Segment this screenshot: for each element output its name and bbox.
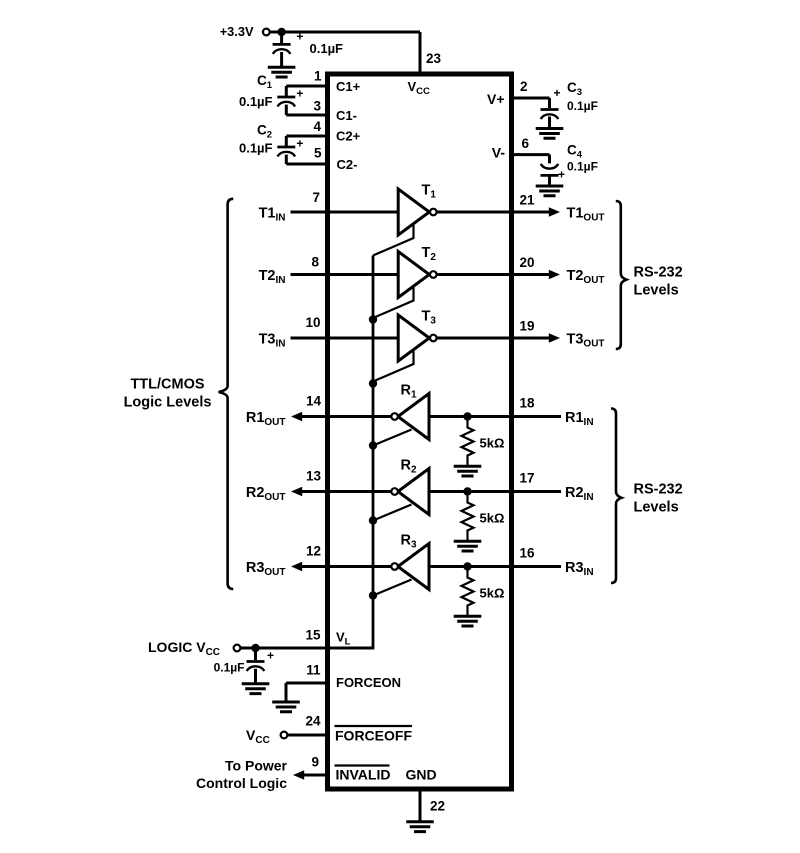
enable bus [372, 256, 375, 649]
enable line T1 [373, 223, 414, 256]
brace TTL/CMOS levels [219, 199, 234, 589]
svg-text:T3: T3 [422, 309, 437, 327]
wire T1OUT pin 21 [436, 211, 550, 214]
svg-text:T1IN: T1IN [259, 206, 286, 224]
svg-text:R2IN: R2IN [565, 485, 594, 503]
svg-text:C1: C1 [257, 73, 273, 91]
svg-text:22: 22 [430, 799, 445, 814]
resistor 5k R2 [462, 492, 474, 542]
wire pin 4 C2+ [286, 135, 328, 138]
arrow R3OUT [291, 562, 302, 572]
wire pin 3 C1- [286, 114, 328, 117]
node T3 enable [369, 379, 377, 387]
svg-text:Logic Levels: Logic Levels [124, 395, 212, 411]
capacitor C1 [285, 86, 288, 96]
node R1 enable [369, 441, 377, 449]
svg-text:1: 1 [314, 69, 322, 84]
arrow T2OUT [549, 270, 560, 280]
svg-text:6: 6 [522, 136, 530, 151]
arrow R2OUT [291, 487, 302, 497]
terminal LOGIC VCC [234, 645, 241, 652]
svg-text:13: 13 [306, 469, 322, 484]
wire pin 6 V- [511, 155, 550, 164]
svg-text:V+: V+ [487, 91, 505, 107]
svg-text:16: 16 [520, 546, 536, 561]
enable line R2 [373, 505, 412, 521]
wire T2IN pin 8 [291, 273, 399, 276]
svg-text:11: 11 [306, 663, 321, 678]
svg-text:R3: R3 [401, 533, 417, 551]
arrow T1OUT [549, 207, 560, 217]
ground at R2 resistor [454, 541, 482, 551]
wire INVALID pin 9 [303, 774, 328, 777]
svg-text:15: 15 [305, 628, 321, 643]
svg-text:R1OUT: R1OUT [246, 410, 286, 428]
ground at VCC bypass [268, 67, 296, 77]
svg-text:C4: C4 [567, 143, 583, 161]
resistor 5k R3 [462, 567, 474, 617]
wire GND pin 22 [419, 789, 422, 821]
svg-text:LOGIC VCC: LOGIC VCC [148, 639, 220, 658]
svg-text:0.1µF: 0.1µF [239, 141, 273, 156]
svg-text:24: 24 [305, 714, 321, 729]
svg-text:T2IN: T2IN [259, 268, 286, 286]
enable line R1 [373, 430, 412, 446]
svg-text:FORCEON: FORCEON [336, 675, 401, 690]
receiver R3 [398, 544, 429, 590]
svg-text:V-: V- [492, 145, 506, 161]
svg-text:Levels: Levels [634, 500, 679, 516]
wire LOGIC VCC pin 15 [241, 647, 375, 650]
svg-text:To Power: To Power [225, 758, 288, 774]
svg-text:RS-232: RS-232 [634, 265, 683, 281]
svg-text:C2+: C2+ [336, 129, 361, 144]
wire R3IN pin 16 [429, 565, 561, 568]
node R1 resistor tap [463, 412, 471, 420]
svg-text:8: 8 [311, 255, 319, 270]
svg-text:14: 14 [306, 394, 322, 409]
ground at R1 resistor [454, 466, 482, 476]
svg-text:VCC: VCC [246, 727, 270, 746]
svg-text:GND: GND [406, 767, 437, 783]
wire pin 1 C1+ [286, 85, 328, 88]
ground at VL cap [242, 684, 270, 694]
node R2 resistor tap [463, 487, 471, 495]
svg-text:+: + [558, 168, 565, 182]
enable line R3 [373, 580, 412, 596]
svg-text:0.1µF: 0.1µF [567, 99, 598, 113]
receiver R2 [398, 469, 429, 515]
svg-text:R2OUT: R2OUT [246, 485, 286, 503]
svg-text:R1IN: R1IN [565, 410, 594, 428]
svg-text:+3.3V: +3.3V [220, 24, 254, 39]
node R2 enable [369, 516, 377, 524]
terminal VCC at FORCEOFF [281, 732, 288, 739]
svg-text:T1OUT: T1OUT [567, 206, 605, 224]
wire T1IN pin 7 [291, 211, 399, 214]
arrow INVALID to power control [293, 770, 304, 780]
wire FORCEON pin 11 [286, 683, 328, 702]
wire T2OUT pin 20 [436, 273, 550, 276]
capacitor C2 [285, 136, 288, 146]
terminal +3.3V [263, 29, 270, 36]
wire pin 2 V+ [511, 98, 550, 108]
wire R3OUT pin 12 [301, 565, 391, 568]
svg-text:12: 12 [306, 544, 321, 559]
svg-text:20: 20 [520, 255, 535, 270]
capacitor C4 reversed [541, 164, 559, 176]
svg-text:FORCEOFF: FORCEOFF [335, 728, 412, 744]
arrow T3OUT [549, 333, 560, 343]
svg-text:Levels: Levels [634, 283, 679, 299]
wire R1IN pin 18 [429, 415, 561, 418]
ground at pin 22 [406, 822, 434, 832]
wire R2IN pin 17 [429, 490, 561, 493]
resistor 5k R1 [462, 417, 474, 467]
wire T3OUT pin 19 [436, 337, 550, 340]
svg-text:5kΩ: 5kΩ [480, 586, 505, 601]
svg-text:C1+: C1+ [336, 79, 361, 94]
svg-text:VCC: VCC [408, 79, 431, 97]
capacitor C3 [541, 110, 559, 120]
svg-text:+: + [267, 649, 274, 663]
svg-text:T3OUT: T3OUT [567, 332, 605, 350]
svg-text:5kΩ: 5kΩ [480, 436, 505, 451]
enable line T2 [373, 286, 414, 319]
svg-text:TTL/CMOS: TTL/CMOS [130, 377, 204, 393]
svg-text:21: 21 [520, 193, 536, 208]
svg-text:+: + [296, 87, 303, 101]
svg-text:0.1µF: 0.1µF [214, 661, 245, 675]
svg-text:10: 10 [305, 315, 320, 330]
svg-text:18: 18 [520, 396, 536, 411]
svg-text:C2-: C2- [337, 157, 358, 172]
svg-text:7: 7 [312, 190, 320, 205]
svg-text:3: 3 [313, 99, 321, 114]
svg-text:T3IN: T3IN [259, 332, 286, 350]
svg-text:2: 2 [520, 79, 528, 94]
ground at FORCEON [272, 702, 300, 712]
svg-text:RS-232: RS-232 [634, 482, 683, 498]
svg-text:R3IN: R3IN [565, 560, 594, 578]
wire R2OUT pin 13 [301, 490, 391, 493]
svg-text:+: + [296, 30, 303, 44]
enable line T3 [373, 349, 414, 382]
ground at R3 resistor [454, 616, 482, 626]
svg-text:19: 19 [520, 319, 535, 334]
svg-text:+: + [296, 137, 303, 151]
node at LOGIC VCC [251, 644, 259, 652]
arrow R1OUT [291, 412, 302, 422]
svg-text:+: + [553, 86, 560, 100]
capacitor 0.1uF at VL [254, 648, 257, 660]
wire pin 5 C2- [286, 163, 328, 166]
svg-text:4: 4 [313, 119, 321, 134]
svg-text:17: 17 [520, 471, 535, 486]
svg-text:Control Logic: Control Logic [196, 775, 287, 791]
svg-text:C2: C2 [257, 123, 272, 141]
svg-text:5kΩ: 5kΩ [480, 511, 505, 526]
svg-text:0.1µF: 0.1µF [310, 41, 344, 56]
svg-text:23: 23 [426, 51, 442, 66]
svg-text:T1: T1 [422, 183, 437, 201]
transmitter T1 [398, 189, 429, 235]
svg-text:R3OUT: R3OUT [246, 560, 286, 578]
wire R1OUT pin 14 [301, 415, 391, 418]
svg-text:5: 5 [314, 146, 322, 161]
node R3 enable [369, 591, 377, 599]
node junction at +3.3V [277, 28, 285, 36]
transmitter T3 [398, 315, 429, 361]
svg-text:T2OUT: T2OUT [567, 268, 605, 286]
svg-text:T2: T2 [422, 245, 437, 263]
node R3 resistor tap [463, 562, 471, 570]
svg-text:R2: R2 [401, 458, 417, 476]
svg-text:C3: C3 [567, 80, 582, 98]
ground at C3 [536, 129, 564, 139]
IC body MAX3243 [328, 74, 512, 789]
svg-text:INVALID: INVALID [336, 767, 391, 783]
svg-text:9: 9 [311, 755, 319, 770]
brace RS-232 transmitter levels [616, 201, 627, 349]
brace RS-232 receiver levels [611, 409, 622, 584]
svg-text:0.1µF: 0.1µF [567, 160, 598, 174]
capacitor bypass 0.1uF at VCC [280, 32, 283, 43]
wire +3.3V to pin 23 [270, 32, 420, 76]
svg-text:R1: R1 [401, 383, 417, 401]
wire T3IN pin 10 [291, 337, 399, 340]
ground at C4 [536, 186, 564, 196]
node T2 enable [369, 315, 377, 323]
transmitter T2 [398, 252, 429, 298]
svg-text:0.1µF: 0.1µF [239, 94, 273, 109]
svg-text:C1-: C1- [336, 108, 357, 123]
svg-text:VL: VL [336, 630, 351, 648]
wire FORCEOFF pin 24 [288, 734, 329, 737]
receiver R1 [398, 394, 429, 440]
